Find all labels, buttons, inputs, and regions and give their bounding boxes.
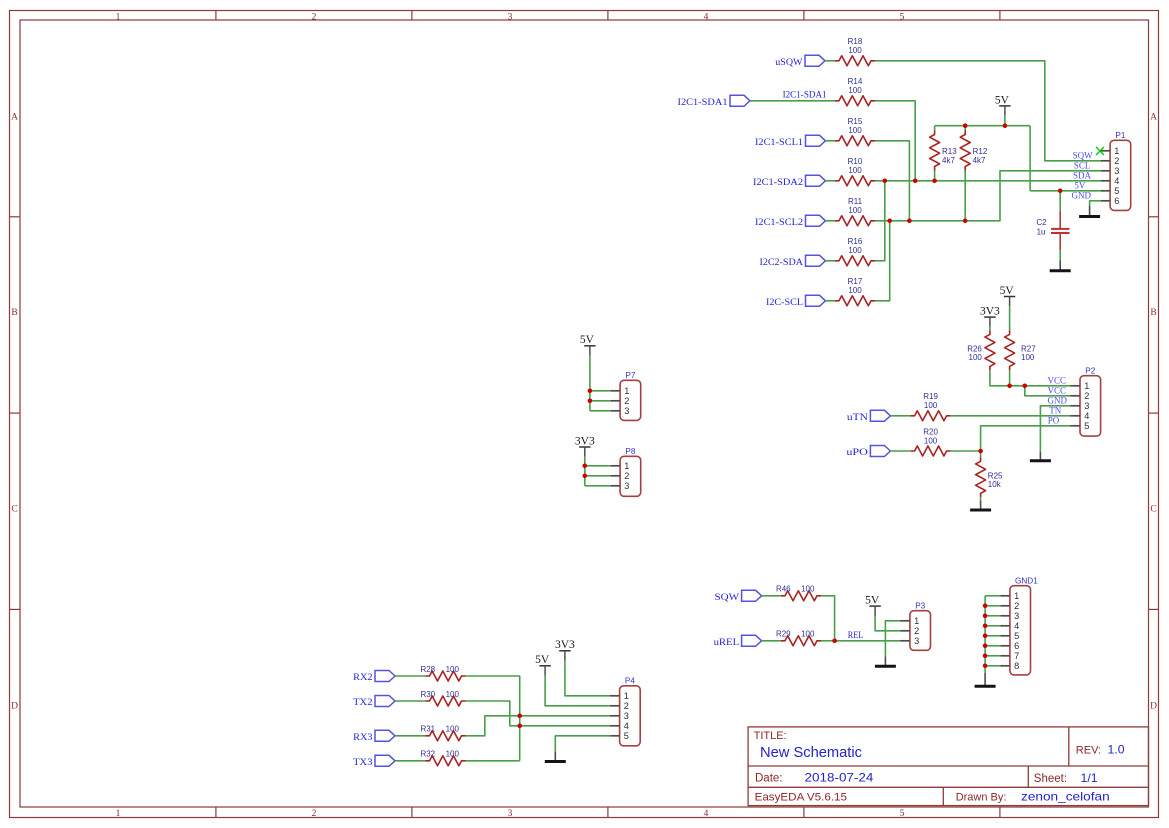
svg-text:3V3: 3V3: [980, 306, 1000, 318]
GND1 pin 4: [1000, 621, 1019, 631]
connector P7: [620, 371, 641, 420]
svg-text:5: 5: [900, 12, 905, 22]
P4 pin 2: [610, 701, 629, 711]
wire R20 to node: [951, 450, 981, 452]
svg-text:100: 100: [924, 401, 938, 410]
svg-text:D: D: [1150, 701, 1157, 711]
svg-text:uTN: uTN: [847, 413, 868, 423]
wire GND1 pin5 wire: [985, 635, 1000, 637]
power 5V: [580, 334, 596, 355]
svg-text:4: 4: [624, 721, 629, 731]
svg-text:5V: 5V: [1074, 180, 1086, 190]
wire SCL net to P1 pin3: [875, 171, 1101, 221]
svg-text:R12: R12: [973, 147, 988, 156]
svg-text:6: 6: [1114, 196, 1119, 206]
resistor R17: [835, 277, 875, 306]
svg-text:1.0: 1.0: [1108, 743, 1125, 757]
svg-text:REV:: REV:: [1076, 744, 1101, 756]
resistor R30: [420, 690, 465, 706]
svg-text:C: C: [11, 505, 17, 515]
junction P8 pin1: [583, 464, 588, 469]
frame row ticks left: [10, 217, 21, 610]
svg-text:RX3: RX3: [353, 733, 373, 743]
P4 pin 5: [610, 731, 629, 741]
wire R31 to P4 pin3: [466, 716, 611, 736]
svg-text:R26: R26: [967, 344, 982, 353]
svg-text:PO: PO: [1048, 415, 1060, 425]
svg-text:100: 100: [848, 286, 862, 295]
wire 3V3 to P8: [584, 457, 586, 486]
svg-text:A: A: [1150, 112, 1157, 122]
svg-text:3V3: 3V3: [555, 639, 575, 651]
junction P8 pin2: [583, 474, 588, 479]
svg-text:A: A: [11, 112, 18, 122]
svg-text:2: 2: [1114, 156, 1119, 166]
svg-text:EasyEDA V5.6.15: EasyEDA V5.6.15: [755, 791, 847, 803]
port TX3: [353, 755, 395, 768]
svg-text:3: 3: [624, 481, 629, 491]
svg-text:5: 5: [900, 809, 905, 819]
wire R16 to SDA net: [875, 181, 885, 261]
svg-text:R15: R15: [848, 117, 863, 126]
svg-text:100: 100: [446, 750, 460, 759]
resistor R20: [911, 427, 951, 456]
svg-text:R17: R17: [848, 277, 863, 286]
svg-text:5: 5: [1114, 186, 1119, 196]
svg-text:I2C1-SDA1: I2C1-SDA1: [678, 98, 728, 108]
svg-text:10k: 10k: [988, 480, 1002, 489]
wire P8 pin3 wire: [585, 485, 611, 487]
resistor R11: [835, 197, 875, 226]
svg-text:R29: R29: [776, 630, 791, 639]
svg-text:100: 100: [446, 665, 460, 674]
P7 pin 3: [611, 406, 630, 416]
svg-text:I2C1-SCL2: I2C1-SCL2: [755, 218, 803, 228]
svg-text:100: 100: [848, 126, 862, 135]
svg-text:3V3: 3V3: [575, 435, 595, 447]
svg-text:2: 2: [624, 701, 629, 711]
svg-text:7: 7: [1014, 651, 1019, 661]
svg-text:R14: R14: [848, 77, 863, 86]
svg-text:2: 2: [1084, 391, 1089, 401]
resistor R25: [976, 457, 1003, 497]
svg-text:TX3: TX3: [353, 758, 373, 768]
wire GND1 pin8 wire: [985, 665, 1000, 667]
ground: [875, 656, 896, 666]
P7 pin 2: [611, 396, 630, 406]
junction GND1 bus: [983, 614, 988, 619]
wire 5V rail: [935, 125, 1031, 127]
wire I2C2-SDA to R16: [826, 260, 836, 262]
wire P3 pin1 to ground: [885, 621, 900, 657]
svg-text:P2: P2: [1085, 366, 1095, 375]
ground: [545, 751, 566, 761]
power 5V: [535, 654, 551, 675]
connector P3: [910, 601, 931, 650]
svg-text:P4: P4: [625, 677, 635, 686]
svg-text:1: 1: [914, 616, 919, 626]
svg-text:3: 3: [624, 406, 629, 416]
junction GND1 bus: [983, 654, 988, 659]
svg-text:8: 8: [1014, 661, 1019, 671]
svg-text:2: 2: [312, 809, 317, 819]
wire GND1 pin1 wire: [985, 595, 1000, 597]
svg-text:P8: P8: [625, 447, 635, 456]
P8 pin 2: [611, 471, 630, 481]
wire R14 to SDA net: [875, 101, 915, 181]
P1 pin 6: [1101, 196, 1120, 206]
P3 pin 2: [900, 626, 919, 636]
junction crossover/pin3: [517, 714, 522, 719]
frame row letters right: [1150, 112, 1157, 711]
svg-text:P3: P3: [915, 601, 925, 610]
junction 5V/C2: [1058, 189, 1063, 194]
resistor R14: [835, 77, 875, 106]
svg-text:I2C1-SDA2: I2C1-SDA2: [753, 178, 803, 188]
svg-text:3: 3: [1084, 401, 1089, 411]
junction SCL/R15: [907, 219, 912, 224]
junction GND1 bus: [983, 644, 988, 649]
wire R29 to node: [821, 640, 835, 642]
svg-text:5V: 5V: [865, 595, 880, 607]
power 5V: [865, 595, 881, 616]
resistor R13: [930, 131, 958, 171]
svg-text:C: C: [1150, 505, 1156, 515]
power 5V: [995, 94, 1011, 115]
svg-text:I2C1-SDA1: I2C1-SDA1: [783, 90, 827, 100]
P1 pin 5: [1101, 186, 1120, 196]
wire I2C1-SDA2 to R10: [826, 180, 836, 182]
junction SDA/R14: [913, 179, 918, 184]
wire R12 top lead: [964, 126, 966, 131]
wire I2C1-SCL1 to R15: [826, 140, 836, 142]
wire I2C1-SCL2 to R11: [826, 220, 836, 222]
junction REL: [832, 639, 837, 644]
P2 pin 3: [1071, 401, 1090, 411]
port RX3: [353, 730, 395, 743]
wire GND1 pin2 wire: [985, 605, 1000, 607]
svg-text:1: 1: [116, 809, 121, 819]
svg-text:R30: R30: [420, 690, 435, 699]
svg-text:100: 100: [1021, 353, 1035, 362]
no-connect X on P1 pin 1: [1096, 147, 1104, 155]
svg-text:3: 3: [508, 12, 513, 22]
svg-text:4k7: 4k7: [942, 156, 955, 165]
power 5V: [1000, 285, 1016, 306]
port I2C2-SDA: [760, 255, 826, 267]
resistor R29: [776, 630, 821, 646]
title block: [748, 727, 1148, 806]
P1 pin 1: [1101, 146, 1120, 156]
wire SQW to R46: [762, 595, 781, 597]
svg-text:100: 100: [848, 46, 862, 55]
svg-text:VCC: VCC: [1048, 375, 1067, 385]
svg-text:3: 3: [914, 636, 919, 646]
wire 5V to R27: [1009, 306, 1011, 330]
wire R27 bottom lead: [1009, 370, 1011, 385]
svg-text:GND1: GND1: [1015, 576, 1038, 585]
svg-text:C2: C2: [1036, 218, 1047, 227]
port I2C1-SCL2: [755, 215, 826, 228]
GND1 pin 2: [1000, 601, 1019, 611]
svg-text:1: 1: [624, 386, 629, 396]
junction SCL/R17: [887, 219, 892, 224]
svg-text:Date:: Date:: [755, 773, 783, 785]
svg-text:100: 100: [801, 585, 815, 594]
wire TX2 to R30: [395, 700, 426, 702]
svg-text:GND: GND: [1048, 395, 1068, 405]
ground: [1079, 206, 1100, 217]
resistor R18: [835, 37, 875, 66]
svg-text:R25: R25: [988, 471, 1003, 480]
wire 3V3 to P4 pin1: [565, 661, 611, 696]
svg-text:4: 4: [704, 809, 709, 819]
svg-text:4: 4: [1084, 411, 1089, 421]
power 3V3: [555, 639, 575, 660]
svg-text:I2C2-SDA: I2C2-SDA: [760, 258, 804, 268]
wire 5V to P7: [589, 356, 591, 411]
wire R13 bottom lead: [934, 171, 936, 181]
svg-text:1: 1: [624, 691, 629, 701]
wire uSQW to R18: [825, 60, 835, 62]
resistor R46: [776, 585, 821, 601]
ground: [970, 500, 991, 510]
wire GND1 pin3 wire: [985, 615, 1000, 617]
port uTN: [847, 410, 891, 423]
svg-text:100: 100: [848, 166, 862, 175]
ground: [975, 673, 996, 686]
svg-text:1: 1: [624, 461, 629, 471]
junction crossover/pin4: [517, 724, 522, 729]
wire I2C1-SDA1 to R14: [750, 100, 835, 102]
resistor R15: [835, 117, 875, 146]
ground: [1050, 260, 1071, 271]
frame row ticks right: [1149, 217, 1159, 610]
svg-text:1: 1: [1114, 146, 1119, 156]
resistor R10: [835, 157, 875, 186]
P8 pin 3: [611, 481, 630, 491]
wire GND1 pin4 wire: [985, 625, 1000, 627]
P2 pin 1: [1071, 381, 1090, 391]
junction 5V/R12: [963, 123, 968, 128]
svg-text:2: 2: [624, 471, 629, 481]
wire R25 to ground: [980, 497, 982, 500]
P1 pin 3: [1101, 166, 1120, 176]
svg-text:3: 3: [1014, 611, 1019, 621]
wire I2C-SCL to R17: [826, 300, 836, 302]
wire R28 to crossover: [466, 676, 520, 761]
svg-text:R28: R28: [420, 665, 435, 674]
GND1 pin 8: [1000, 661, 1019, 671]
svg-text:Drawn By:: Drawn By:: [956, 792, 1007, 804]
svg-text:uSQW: uSQW: [775, 58, 802, 68]
svg-text:2: 2: [624, 396, 629, 406]
port TX2: [353, 696, 395, 709]
svg-text:1u: 1u: [1037, 228, 1046, 237]
junction SCL/R12: [963, 219, 968, 224]
wire R15 to SCL net: [875, 141, 909, 221]
svg-text:R19: R19: [923, 392, 938, 401]
svg-text:R18: R18: [848, 37, 863, 46]
connector P4: [620, 677, 641, 746]
svg-text:5V: 5V: [580, 334, 595, 346]
wire P7 pin2 wire: [590, 400, 611, 402]
svg-text:1: 1: [1084, 381, 1089, 391]
wire uREL to R29: [762, 640, 781, 642]
svg-text:New Schematic: New Schematic: [760, 745, 862, 761]
port I2C1-SCL1: [755, 135, 826, 148]
svg-text:SQW: SQW: [1073, 150, 1094, 160]
wire C2 to ground: [1059, 250, 1061, 260]
wire REL to P3 pin3: [835, 640, 901, 642]
P2 pin 5: [1071, 421, 1090, 431]
resistor R28: [420, 665, 465, 681]
wire 5V row to P1 pin5: [1030, 190, 1101, 192]
GND1 pin 1: [1000, 591, 1019, 601]
svg-text:100: 100: [848, 206, 862, 215]
svg-text:100: 100: [446, 690, 460, 699]
P3 pin 3: [900, 636, 919, 646]
svg-text:SQW: SQW: [715, 593, 740, 603]
connector GND1: [1010, 576, 1038, 675]
wire GND1 pin7 wire: [985, 655, 1000, 657]
resistor R12: [960, 131, 988, 171]
svg-text:R31: R31: [420, 725, 435, 734]
port SQW: [715, 590, 762, 603]
wire P8 pin1 wire: [585, 465, 611, 467]
svg-text:4: 4: [1114, 176, 1119, 186]
svg-text:D: D: [11, 701, 18, 711]
svg-text:uPO: uPO: [846, 448, 868, 458]
svg-text:100: 100: [446, 725, 460, 734]
svg-text:5: 5: [1084, 421, 1089, 431]
svg-text:TITLE:: TITLE:: [754, 730, 787, 742]
svg-text:I2C-SCL: I2C-SCL: [766, 298, 803, 308]
capacitor C2: [1036, 211, 1069, 250]
svg-text:5V: 5V: [1000, 285, 1015, 297]
svg-text:6: 6: [1014, 641, 1019, 651]
svg-text:100: 100: [924, 436, 938, 445]
resistor R32: [420, 750, 465, 766]
wire uTN to R19: [890, 415, 910, 417]
svg-text:zenon_celofan: zenon_celofan: [1021, 790, 1110, 804]
wire 5V to P3 pin2: [875, 616, 900, 631]
junction SDA/R16: [883, 179, 888, 184]
resistor R19: [911, 392, 951, 421]
junction GND1 bus: [983, 624, 988, 629]
wire 5V stub: [1004, 116, 1006, 126]
svg-text:R46: R46: [776, 585, 791, 594]
P1 pin 4: [1101, 176, 1120, 186]
wire R46 to REL node: [821, 596, 835, 641]
svg-text:3: 3: [624, 711, 629, 721]
wire R13 top lead: [934, 126, 936, 131]
junction P7 pin2: [588, 399, 593, 404]
frame row letters left: [11, 112, 18, 711]
wire R18 to P1 pin2: [875, 61, 1101, 161]
GND1 pin 6: [1000, 641, 1019, 651]
svg-text:B: B: [1150, 308, 1156, 318]
svg-text:R16: R16: [848, 237, 863, 246]
wire 5V rail down to pin5 row: [1029, 126, 1031, 191]
port uREL: [714, 635, 762, 648]
svg-text:RX2: RX2: [353, 673, 373, 683]
wire R12 bottom lead: [964, 171, 966, 221]
resistor R27: [1005, 330, 1037, 370]
svg-text:R32: R32: [420, 750, 435, 759]
P4 pin 3: [610, 711, 629, 721]
svg-text:5V: 5V: [995, 94, 1010, 106]
svg-text:TX2: TX2: [353, 698, 373, 708]
P7 pin 1: [611, 386, 630, 396]
P3 pin 1: [900, 616, 919, 626]
wire R32 to crossover: [466, 760, 520, 762]
svg-text:4k7: 4k7: [973, 156, 986, 165]
svg-text:4: 4: [1014, 621, 1019, 631]
frame column ticks bottom: [216, 807, 1000, 818]
svg-text:SCL: SCL: [1074, 160, 1091, 170]
GND1 pin 7: [1000, 651, 1019, 661]
svg-text:GND: GND: [1072, 190, 1092, 200]
svg-text:R27: R27: [1021, 344, 1036, 353]
port I2C1-SDA1: [678, 95, 751, 108]
wire R30 to P4 pin4: [466, 701, 611, 726]
power 3V3: [980, 306, 1000, 327]
port I2C1-SDA2: [753, 175, 826, 188]
wire TX3 to R32: [395, 760, 426, 762]
wire uPO to R20: [890, 450, 910, 452]
wire RX3 to R31: [395, 735, 426, 737]
P8 pin 1: [611, 461, 630, 471]
wire P4 pin5 to ground: [555, 736, 610, 752]
svg-text:Sheet:: Sheet:: [1034, 773, 1067, 785]
svg-text:REL: REL: [848, 630, 863, 640]
junction SDA/R13: [932, 179, 937, 184]
svg-text:100: 100: [848, 86, 862, 95]
wire R19 to P2 pin4: [951, 415, 1071, 417]
wire P1 pin6 to ground: [1090, 201, 1101, 206]
resistor R16: [835, 237, 875, 266]
svg-text:1: 1: [1014, 591, 1019, 601]
junction 5V symbol: [1003, 123, 1008, 128]
junction GND1 bus: [983, 604, 988, 609]
resistor R26: [967, 330, 995, 370]
svg-text:2018-07-24: 2018-07-24: [805, 771, 874, 785]
connector P2: [1080, 366, 1101, 436]
wire RX2 to R28: [395, 675, 426, 677]
junction PO node: [978, 449, 983, 454]
junction GND1 bus: [983, 634, 988, 639]
junction GND1 bus: [983, 664, 988, 669]
wire 5V to P4 pin2: [545, 676, 611, 706]
GND1 pin 3: [1000, 611, 1019, 621]
wire GND1 bus: [984, 596, 986, 673]
svg-text:I2C1-SCL1: I2C1-SCL1: [755, 138, 803, 148]
port uSQW: [775, 55, 825, 68]
svg-text:R13: R13: [942, 147, 957, 156]
junction VCC branch: [1023, 384, 1028, 389]
frame column ticks top: [216, 11, 1000, 21]
P2 pin 2: [1071, 391, 1090, 401]
wire P7 pin1 wire: [590, 390, 611, 392]
svg-text:2: 2: [914, 626, 919, 636]
connector P1: [1110, 131, 1131, 210]
svg-text:R11: R11: [848, 197, 863, 206]
wire P8 pin2 wire: [585, 475, 611, 477]
wire R17 to SCL net: [875, 221, 890, 301]
svg-text:2: 2: [1014, 601, 1019, 611]
svg-text:5: 5: [624, 731, 629, 741]
